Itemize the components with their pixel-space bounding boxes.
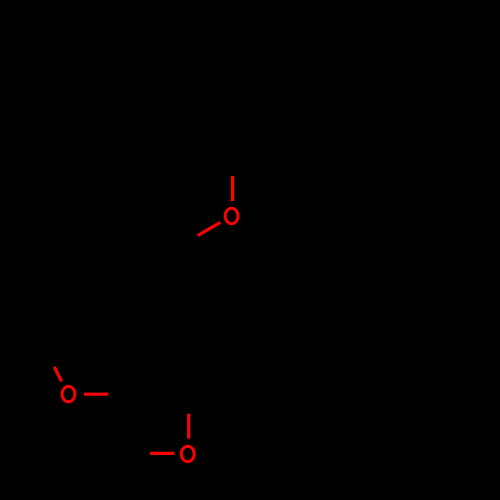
wire: bond O-CH2 carbon half (black) xyxy=(164,236,197,255)
wire: chain bond CH2-C3 (black) xyxy=(148,324,157,394)
wire: bond O-CH3 oxygen half (red) xyxy=(54,367,61,382)
wire: bond CH2-O upper half (carbon side, black) xyxy=(231,136,234,176)
methoxy oxygen O xyxy=(62,386,75,401)
oxetane ring bond O-C2 carbon half (black) xyxy=(187,373,190,414)
wire: chain bond CH2-CH2 (black) xyxy=(156,255,164,324)
wire: bond phenyl-CH2 (black on black) xyxy=(233,97,301,136)
oxetane ring oxygen O xyxy=(181,446,194,461)
oxetane ring bond C3-C4 (black) xyxy=(112,372,116,453)
wire: bond C3-O(methoxy) oxygen half (red) xyxy=(84,393,108,396)
oxetane ring bond C2-C3 (black) xyxy=(115,372,189,373)
wire: bond O-CH2 oxygen half (red) xyxy=(198,222,221,235)
oxetane ring bond O-C4 oxygen half (red) xyxy=(150,452,174,455)
phenyl ring (carbon bonds, black on black) xyxy=(301,58,436,214)
ether oxygen O (benzyl ether) xyxy=(225,208,238,223)
oxetane ring bond O-C4 carbon half (black) xyxy=(114,451,150,455)
wire: bond C3-O(methoxy) carbon half (black) xyxy=(108,393,147,396)
wire: bond O-CH3 carbon half (black) xyxy=(40,340,54,367)
oxetane ring bond O-C2 oxygen half (red) xyxy=(187,414,190,439)
wire: bond CH2-O lower half (oxygen side, red) xyxy=(231,176,234,201)
